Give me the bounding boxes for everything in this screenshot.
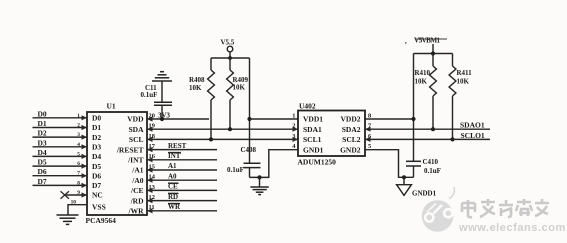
svg-text:D4: D4	[92, 152, 101, 161]
net label V5VBM1 isolated supply	[405, 37, 447, 54]
svg-text:R408: R408	[189, 76, 205, 84]
svg-text:V5VBM1: V5VBM1	[414, 37, 441, 45]
chip U1 body	[87, 112, 147, 215]
svg-text:A0: A0	[168, 172, 177, 180]
wire isolated rail bar	[414, 53, 453, 55]
svg-text:3V3: 3V3	[158, 111, 171, 119]
svg-text:6: 6	[77, 161, 80, 167]
svg-text:/RD: /RD	[130, 196, 145, 205]
wire VDD1 to U402 pin1	[250, 118, 299, 120]
svg-text:/A1: /A1	[131, 166, 144, 175]
svg-text:10: 10	[71, 199, 77, 205]
wire pin20 VDD 3V3	[147, 118, 209, 120]
svg-text:GND1: GND1	[303, 145, 324, 154]
svg-text:SDA2: SDA2	[342, 125, 361, 134]
ground symbol under C408	[250, 177, 268, 194]
svg-text:0.1uF: 0.1uF	[141, 91, 158, 99]
wire pin13 CE	[147, 183, 217, 191]
U1 right pin numbers	[149, 112, 156, 211]
svg-text:D5: D5	[38, 158, 47, 167]
resistor R411	[449, 54, 472, 140]
wire GND2 to GNDD1	[365, 150, 414, 178]
svg-text:1: 1	[77, 113, 80, 119]
svg-text:D4: D4	[38, 148, 47, 157]
svg-text:D0: D0	[38, 109, 47, 118]
svg-text:SDAO1: SDAO1	[460, 121, 485, 130]
U402 pin arrows	[293, 127, 371, 142]
watermark text dianzi fashaoyou	[462, 199, 549, 217]
svg-text:D1: D1	[92, 123, 101, 132]
chip U1 left pin names	[92, 113, 106, 211]
wire SCL2 to SCLO1	[365, 131, 490, 140]
svg-text:C408: C408	[241, 146, 257, 154]
wire C408 bottom to GND1 pin	[250, 150, 299, 178]
svg-text:ADUM1250: ADUM1250	[298, 158, 337, 167]
svg-text:D2: D2	[38, 129, 47, 138]
U402 right pin numbers	[368, 112, 372, 150]
junction VDD1 wire	[247, 117, 251, 121]
svg-text:/A0: /A0	[131, 176, 144, 185]
svg-text:U402: U402	[299, 102, 316, 111]
svg-text:A1: A1	[168, 162, 177, 170]
svg-text:U1: U1	[107, 102, 116, 111]
svg-text:VDD1: VDD1	[303, 115, 323, 124]
svg-text:NC: NC	[92, 191, 103, 200]
chip U402 body	[298, 111, 365, 157]
svg-text:D5: D5	[92, 162, 101, 171]
svg-text:V5.5: V5.5	[221, 39, 235, 47]
wire pin18 SCL to U402 SCL1	[147, 138, 298, 140]
resistor R409	[227, 58, 249, 129]
svg-text:9: 9	[77, 190, 80, 196]
svg-text:SCL1: SCL1	[303, 135, 322, 144]
svg-text:8: 8	[77, 180, 80, 186]
wire D0 to pin 1	[33, 109, 88, 120]
svg-text:GND2: GND2	[340, 145, 361, 154]
wire pin14 A0	[147, 172, 217, 180]
svg-text:3: 3	[77, 132, 80, 138]
junction rail stem	[431, 51, 435, 55]
chip U402 left pin names	[303, 115, 324, 155]
wire D6 to pin 7	[33, 167, 88, 178]
wire D3 to pin 4	[33, 138, 88, 149]
svg-text:D3: D3	[38, 138, 47, 147]
svg-text:10K: 10K	[233, 84, 246, 92]
wire rail drop to VDD2 and C410	[413, 54, 415, 162]
svg-text:R411: R411	[457, 69, 473, 77]
wire pin16 INT	[147, 152, 217, 160]
capacitor C410	[406, 158, 441, 177]
svg-text:D6: D6	[92, 171, 101, 180]
wire VDD2 to rail drop	[365, 118, 414, 120]
resistor R408	[189, 58, 214, 139]
svg-text:0.1uF: 0.1uF	[424, 167, 441, 175]
wire pin17 REST	[147, 142, 217, 150]
svg-text:2: 2	[77, 123, 80, 129]
svg-text:1: 1	[292, 112, 295, 119]
power V5.5	[221, 39, 235, 59]
svg-text:C410: C410	[423, 158, 439, 166]
wire D7 to pin 8	[33, 177, 88, 188]
svg-text:D0: D0	[92, 113, 101, 122]
chip U1 right pin names	[116, 115, 144, 216]
wire V5.5 rail bar	[211, 57, 250, 59]
junction V5.5 stem	[228, 56, 232, 60]
chip U402 right pin names	[340, 115, 361, 155]
svg-text:/INT: /INT	[127, 156, 143, 165]
wire pin19 SDA to U402 SDA1	[147, 128, 298, 130]
svg-text:4: 4	[77, 142, 80, 148]
junction C11 to 3V3 wire	[160, 117, 164, 121]
svg-text:D1: D1	[38, 119, 47, 128]
U402 left pin numbers	[292, 112, 296, 150]
svg-text:SCLO1: SCLO1	[461, 131, 485, 140]
wire pin15 A1	[147, 162, 217, 170]
svg-text:D7: D7	[38, 177, 47, 186]
svg-text:SCL: SCL	[129, 135, 144, 144]
svg-text:SCL2: SCL2	[342, 135, 361, 144]
pin 10 VSS wire to ground	[68, 199, 87, 214]
junction R408 to SCL wire	[209, 137, 213, 141]
U1 right pin arrows	[147, 116, 153, 213]
capacitor C11	[141, 81, 173, 119]
junction R411 to SCLO1 wire	[450, 137, 454, 141]
svg-text:VSS: VSS	[92, 203, 106, 212]
svg-text:5: 5	[368, 143, 371, 150]
junction R409 to SDA wire	[228, 127, 232, 131]
svg-text:SDA: SDA	[128, 125, 144, 134]
junction ground stem	[257, 175, 261, 179]
svg-text:,: ,	[405, 37, 407, 45]
svg-text:D7: D7	[92, 181, 101, 190]
wire D2 to pin 3	[33, 129, 88, 140]
svg-text:5: 5	[77, 151, 80, 157]
svg-text:0.1uF: 0.1uF	[227, 166, 244, 174]
wire pin11 WR	[147, 203, 217, 211]
svg-text:7: 7	[77, 171, 80, 177]
svg-text:/CE: /CE	[130, 186, 144, 195]
svg-text:GNDD1: GNDD1	[412, 190, 437, 198]
svg-text:D2: D2	[92, 133, 101, 142]
junction GNDD1 stem	[402, 175, 406, 179]
svg-text:10K: 10K	[415, 78, 428, 86]
capacitor C408	[227, 146, 261, 177]
wire V5.5 drop to VDD1 and C408	[249, 58, 251, 163]
inverted ground symbol above C11	[152, 72, 172, 81]
junction VDD2 wire	[411, 117, 415, 121]
svg-text:VDD: VDD	[127, 115, 144, 124]
pin 9 NC stub with no-connect X	[61, 190, 88, 199]
svg-text:PCA9564: PCA9564	[86, 216, 117, 225]
svg-text:REST: REST	[168, 142, 187, 150]
ground GNDD1 triangle	[397, 177, 437, 197]
wire pin12 RD	[147, 193, 217, 201]
svg-text:VDD2: VDD2	[341, 115, 361, 124]
watermark logo circle	[422, 187, 455, 232]
svg-text:R410: R410	[415, 69, 431, 77]
svg-text:D3: D3	[92, 143, 101, 152]
wire D5 to pin 6	[33, 158, 88, 169]
wire D4 to pin 5	[33, 148, 88, 159]
resistor R410	[415, 54, 437, 130]
svg-text:D6: D6	[38, 167, 47, 176]
wire SDA2 to SDAO1	[365, 121, 490, 130]
junction R410 to SDAO1 wire	[431, 127, 435, 131]
ground symbol under U1 VSS	[57, 215, 79, 224]
svg-text:www.elecfans.com: www.elecfans.com	[458, 222, 566, 234]
svg-text:10K: 10K	[189, 84, 202, 92]
wire D1 to pin 2	[33, 119, 88, 130]
svg-text:10K: 10K	[457, 78, 470, 86]
svg-text:/RESET: /RESET	[116, 145, 144, 154]
svg-text:/WR: /WR	[128, 207, 145, 216]
svg-text:SDA1: SDA1	[303, 125, 322, 134]
